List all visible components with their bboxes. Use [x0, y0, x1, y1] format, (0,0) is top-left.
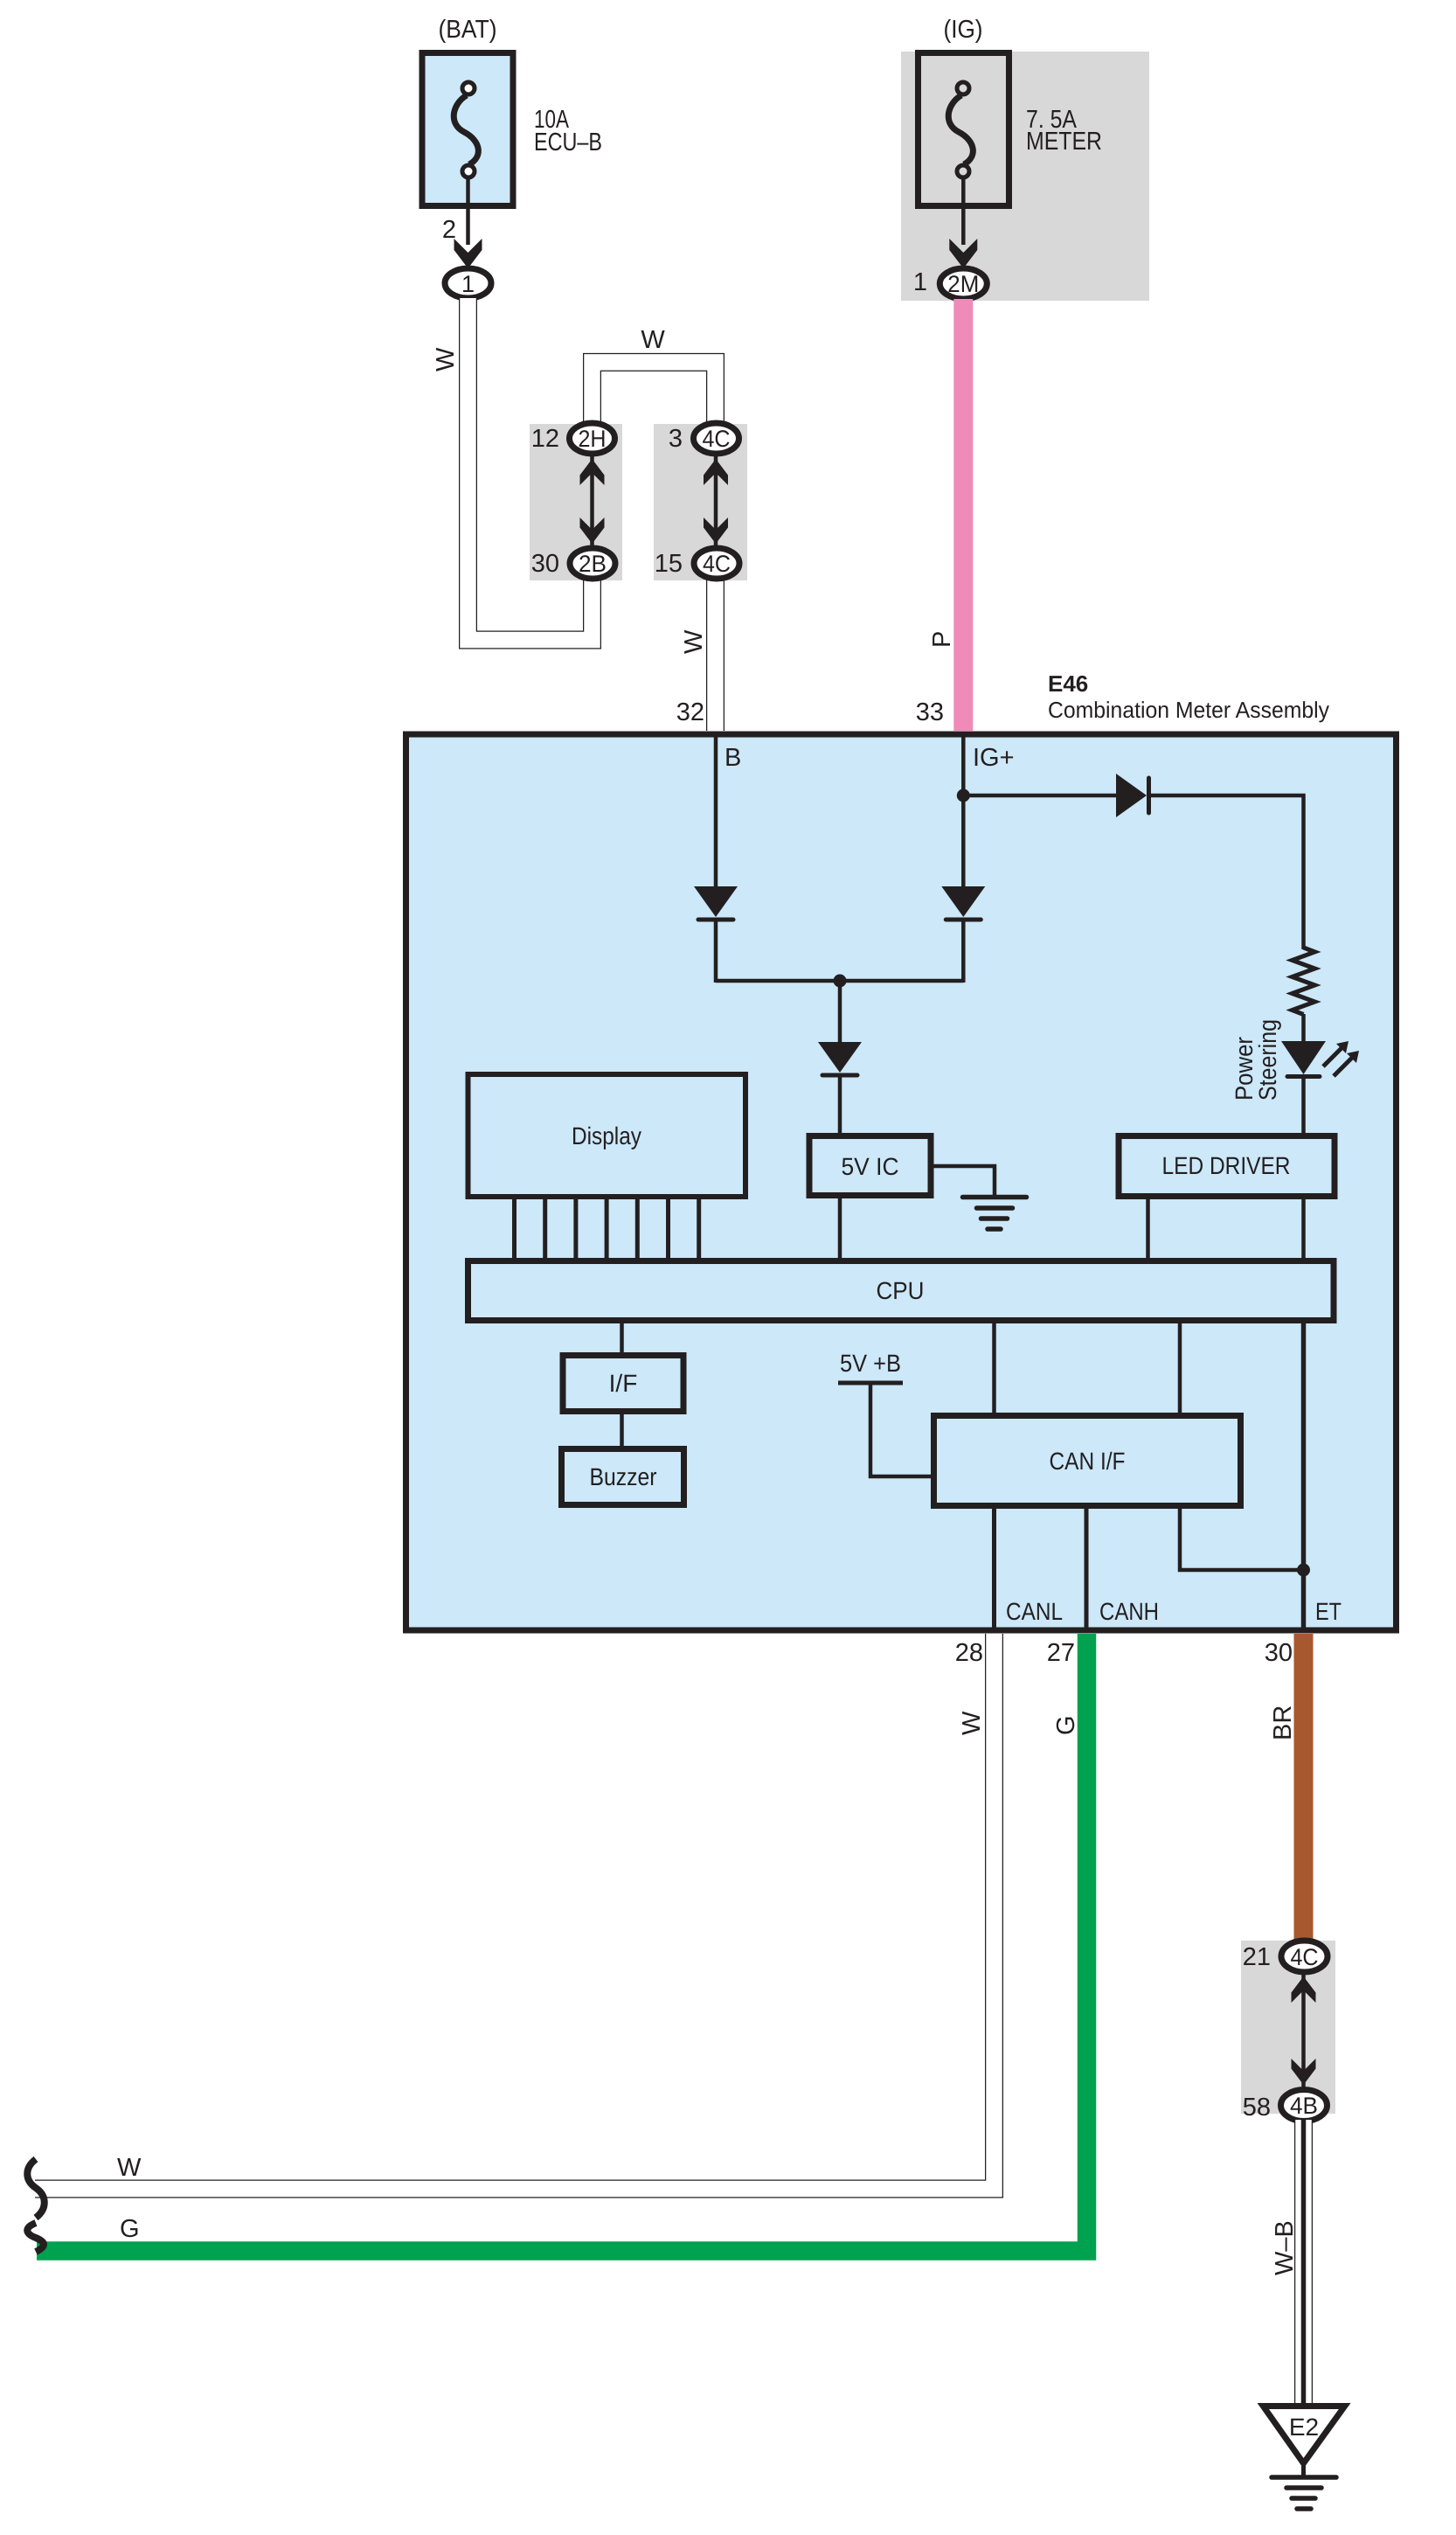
wire 5V IC to ground [933, 1166, 995, 1195]
connector oval 4C top [694, 423, 739, 454]
svg-text:2M: 2M [947, 271, 979, 297]
svg-text:CANH: CANH [1099, 1598, 1159, 1625]
svg-text:4C: 4C [1291, 1944, 1319, 1970]
svg-text:W: W [958, 1711, 986, 1735]
wires LED DRIVER to CPU [1146, 1197, 1150, 1259]
svg-text:32: 32 [676, 698, 704, 726]
svg-text:12: 12 [531, 425, 559, 453]
svg-text:1: 1 [461, 271, 475, 297]
svg-text:(IG): (IG) [944, 16, 983, 44]
connector oval 2B [570, 548, 615, 579]
white wire W loop from 2H up over to 4C [593, 362, 716, 425]
brown wire BR from pin 30 down to 4C [1294, 1634, 1314, 1941]
wire from IG+ node right to diode D3 [963, 794, 1118, 798]
wire from D3 right then down to resistor [1149, 795, 1304, 949]
wire from resistor to LED [1301, 1014, 1306, 1044]
wire CANL from CAN I/F to pin 28 [992, 1509, 996, 1628]
5V IC box [809, 1136, 931, 1196]
svg-text:(BAT): (BAT) [439, 16, 497, 44]
svg-text:METER: METER [1026, 128, 1102, 156]
wire I/F to Buzzer [620, 1412, 624, 1448]
CPU box [468, 1261, 1335, 1321]
wire 5V IC down to CPU [838, 1196, 842, 1259]
break squiggle on green wire [27, 2223, 44, 2252]
white wire W from pin 28 down and left [35, 1634, 995, 2189]
svg-text:W: W [641, 326, 665, 354]
svg-text:Buzzer: Buzzer [590, 1463, 657, 1490]
node dot on IG+ line [957, 789, 970, 802]
E46 Combination Meter Assembly box [406, 734, 1397, 1630]
LED Power Steering [1281, 1041, 1359, 1077]
wire from fuse ECU-B pin 2 [466, 177, 470, 245]
5V +B rail symbol and wire to CAN I/F [838, 1381, 903, 1386]
fuse F2 7.5A METER (IG) [919, 53, 1009, 206]
svg-text:4C: 4C [703, 426, 731, 452]
svg-text:W: W [680, 629, 708, 654]
wire below E2 [1301, 2463, 1306, 2477]
node dot ET [1297, 1564, 1310, 1577]
white wire W from connector 1 down right and up to 2B [468, 298, 593, 640]
pink wire P from 2M down to pin 33 [953, 299, 973, 731]
wire CPU to I/F [620, 1321, 624, 1355]
wire B vertical inside box [714, 737, 718, 889]
wires CPU to CAN I/F [992, 1321, 996, 1416]
svg-text:2H: 2H [579, 426, 607, 452]
svg-text:Display: Display [572, 1122, 641, 1149]
svg-text:27: 27 [1047, 1639, 1075, 1667]
arrow into connector 2M [949, 239, 977, 268]
svg-text:1: 1 [913, 268, 927, 296]
diode D4 above 5V IC [818, 1042, 862, 1073]
CAN I/F box [934, 1416, 1241, 1506]
svg-text:ECU–B: ECU–B [534, 128, 602, 156]
svg-text:B: B [725, 744, 741, 772]
resistor on LED branch [1293, 948, 1315, 1015]
svg-text:30: 30 [1265, 1639, 1293, 1667]
LED DRIVER box [1119, 1136, 1335, 1197]
connector oval 4B [1281, 2090, 1328, 2122]
svg-text:LED DRIVER: LED DRIVER [1162, 1152, 1291, 1179]
svg-text:E2: E2 [1289, 2413, 1319, 2441]
svg-text:ET: ET [1315, 1598, 1342, 1625]
wire from fuse METER pin 1 [961, 177, 966, 245]
svg-text:33: 33 [916, 698, 944, 726]
connector oval 1 [445, 268, 491, 298]
gray box behind connector 4C/4C [654, 424, 747, 580]
svg-text:G: G [1052, 1715, 1080, 1735]
svg-text:CPU: CPU [877, 1277, 925, 1304]
gray box behind connector 4C/4B (bottom right) [1241, 1941, 1335, 2114]
connector oval 4C (bottom group) [1281, 1941, 1328, 1972]
connector oval 2M [939, 268, 987, 299]
gray box behind connector 2H/2B [530, 424, 622, 580]
gray backboard behind IG fuse [901, 52, 1149, 301]
Display box [468, 1074, 746, 1197]
svg-text:P: P [928, 631, 956, 648]
ground symbol E2 [1272, 2477, 1336, 2509]
svg-text:G: G [120, 2215, 140, 2243]
svg-text:5V IC: 5V IC [842, 1153, 899, 1180]
svg-text:CANL: CANL [1006, 1598, 1063, 1625]
fuse F1 10A ECU-B (BAT) [422, 53, 513, 206]
svg-text:CAN I/F: CAN I/F [1050, 1448, 1126, 1475]
arrow into connector 1 [454, 239, 482, 268]
diode D1 on B line [694, 886, 738, 917]
white-black wire W-B from 4B down to E2 [1294, 2120, 1313, 2406]
wire from node down to diode D4 [838, 981, 842, 1045]
svg-text:15: 15 [655, 550, 683, 578]
svg-text:I/F: I/F [609, 1370, 638, 1397]
svg-text:W: W [117, 2154, 142, 2182]
svg-text:W: W [432, 347, 460, 372]
connector double arrow 4C-4B (bottom) [1292, 1974, 1316, 2089]
svg-text:30: 30 [531, 550, 559, 578]
diode D3 pointing right [1116, 774, 1147, 817]
connector oval 2H [570, 423, 615, 454]
comb wires from Display to CPU [515, 1199, 699, 1259]
svg-text:W–B: W–B [1271, 2220, 1299, 2275]
svg-text:4B: 4B [1290, 2093, 1318, 2119]
svg-text:3: 3 [669, 425, 683, 453]
white wire W from 4C down to pin 32 [706, 577, 725, 731]
svg-text:4C: 4C [703, 551, 731, 577]
svg-text:Steering: Steering [1254, 1019, 1281, 1101]
svg-text:BR: BR [1269, 1705, 1297, 1740]
connector double arrow 2H-2B [580, 455, 605, 551]
green wire G from pin 27 down and left [37, 1634, 1087, 2251]
break squiggle on white wire [27, 2159, 45, 2218]
wire from CAN I/F right output to ET node [1180, 1509, 1304, 1570]
ground E2 triangle [1263, 2407, 1344, 2464]
wire IG+ vertical inside box [961, 737, 966, 889]
ground symbol at 5V IC [963, 1198, 1027, 1230]
I/F box [563, 1356, 683, 1412]
wire CPU down to ET node [1301, 1321, 1307, 1628]
svg-text:Combination Meter Assembly: Combination Meter Assembly [1048, 697, 1329, 723]
svg-text:5V +B: 5V +B [840, 1350, 901, 1377]
svg-text:2B: 2B [579, 551, 607, 577]
svg-text:28: 28 [955, 1639, 983, 1667]
connector oval 4C bottom [694, 548, 739, 579]
svg-text:21: 21 [1243, 1943, 1271, 1971]
horizontal wire joining B and IG+ branches [716, 979, 963, 983]
svg-text:IG+: IG+ [973, 744, 1015, 772]
Buzzer box [562, 1449, 684, 1505]
connector double arrow 4C-4C [704, 455, 728, 551]
svg-text:58: 58 [1243, 2094, 1271, 2122]
wire from LED down to LED DRIVER [1301, 1076, 1306, 1136]
svg-text:E46: E46 [1048, 670, 1088, 697]
wire CANH from CAN I/F to pin 27 [1085, 1509, 1089, 1628]
node dot on joining wire [834, 975, 847, 988]
diode D2 on IG+ line [941, 886, 985, 917]
